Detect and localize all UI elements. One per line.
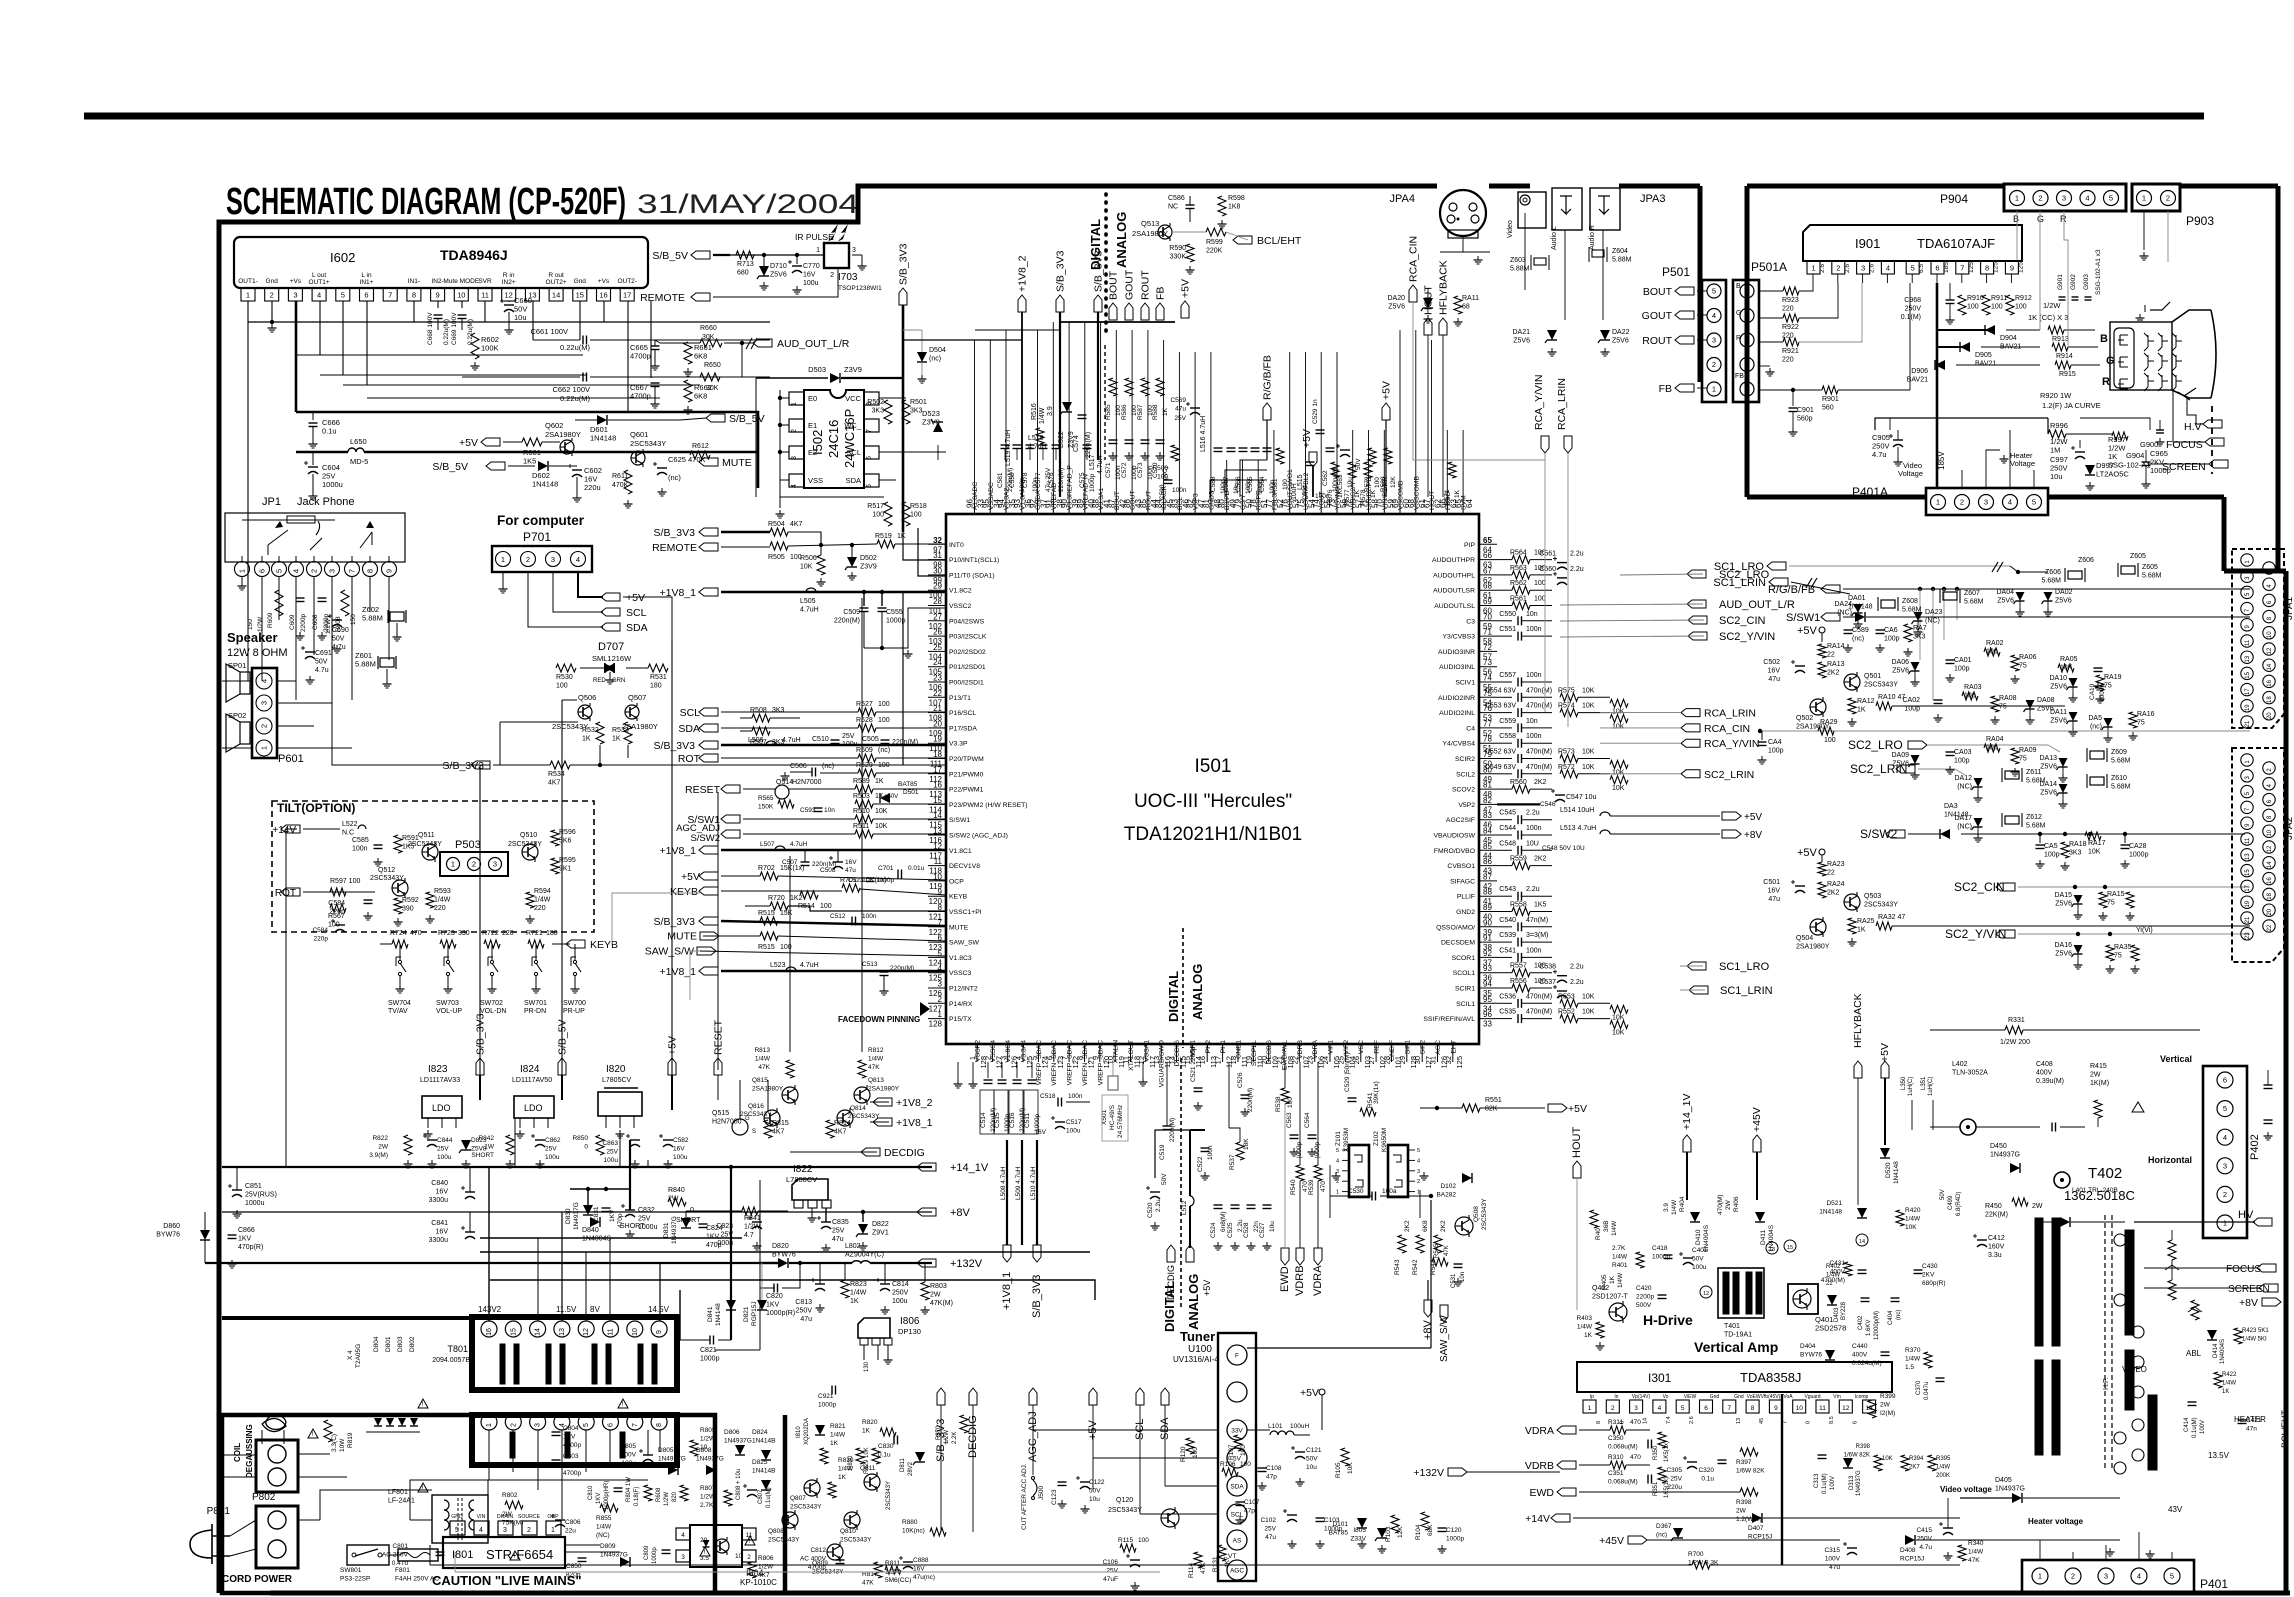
svg-text:39K(1x): 39K(1x) — [1373, 1081, 1380, 1104]
transistor Q808 2SC5343Y — [782, 1512, 798, 1528]
resistor R518 100 — [902, 502, 910, 526]
svg-text:10: 10 — [632, 1328, 639, 1336]
svg-text:C691: C691 — [315, 650, 332, 657]
svg-text:220: 220 — [1782, 306, 1794, 313]
svg-text:L515: L515 — [1297, 474, 1304, 490]
svg-text:SC2_Y/VIN: SC2_Y/VIN — [1719, 631, 1775, 643]
svg-text:C528: C528 — [1243, 1222, 1250, 1238]
capacitor C691 50V 4.7u — [305, 651, 315, 653]
svg-text:C305: C305 — [1666, 1467, 1682, 1474]
svg-text:4: 4 — [2137, 1572, 2141, 1581]
resistor R422 1/4W 1K — [2214, 1372, 2222, 1388]
svg-text:128: 128 — [929, 1020, 943, 1029]
svg-text:10K: 10K — [1612, 1030, 1625, 1037]
svg-text:1/4W: 1/4W — [1905, 1356, 1921, 1363]
svg-text:1N414B: 1N414B — [752, 1468, 776, 1475]
svg-text:R574: R574 — [1558, 703, 1575, 710]
svg-text:3.9: 3.9 — [1663, 1203, 1670, 1212]
net flag +5V right bundle — [1382, 403, 1390, 420]
resistor R528 100 — [858, 724, 876, 732]
svg-text:KEYB: KEYB — [670, 886, 698, 898]
svg-text:R515: R515 — [758, 910, 775, 917]
svg-text:RA35: RA35 — [2114, 944, 2132, 951]
svg-text:5: 5 — [1681, 1405, 1685, 1412]
svg-text:1W: 1W — [484, 1144, 495, 1151]
svg-text:100: 100 — [878, 717, 890, 724]
svg-text:1: 1 — [486, 1423, 493, 1427]
svg-text:2: 2 — [830, 272, 834, 279]
svg-text:ViEW: ViEW — [1684, 1394, 1697, 1400]
resistor RA23 22 — [1818, 862, 1826, 876]
svg-text:+5V: +5V — [1797, 847, 1818, 859]
svg-text:2SC5343Y: 2SC5343Y — [1108, 1507, 1142, 1514]
svg-text:P503: P503 — [455, 839, 481, 851]
svg-text:4.7uH: 4.7uH — [800, 962, 819, 969]
capacitors C524 C525 C528 C527 — [1214, 1204, 1223, 1206]
net flag S/SW1 left — [721, 815, 740, 823]
svg-text:C552 63V: C552 63V — [1485, 749, 1516, 756]
svg-text:R724: R724 — [390, 930, 407, 937]
svg-text:Jack Phone: Jack Phone — [297, 496, 354, 508]
svg-text:28: 28 — [1383, 1056, 1392, 1064]
svg-text:14: 14 — [1643, 1418, 1649, 1424]
svg-text:24.576MHz: 24.576MHz — [1117, 1105, 1124, 1138]
svg-text:10: 10 — [2267, 829, 2273, 836]
svg-text:1000p: 1000p — [652, 1547, 658, 1564]
svg-text:R553: R553 — [1558, 993, 1575, 1000]
capacitor C888 16V 47u(nc) — [903, 1561, 913, 1563]
capacitor C665 4700p — [651, 345, 660, 347]
net flag ROT tilt — [281, 888, 300, 896]
svg-text:9: 9 — [938, 888, 943, 897]
resistor R591 1K5 — [394, 835, 402, 853]
svg-text:VSSC3: VSSC3 — [949, 970, 972, 977]
svg-text:JP1: JP1 — [262, 496, 281, 508]
svg-text:GOUT: GOUT — [1124, 269, 1136, 300]
svg-text:!: ! — [422, 1401, 424, 1408]
svg-text:C565: C565 — [1247, 476, 1254, 492]
svg-text:C431: C431 — [1829, 1260, 1845, 1267]
connector JPA1 — [2232, 549, 2284, 728]
svg-text:125: 125 — [1455, 1056, 1464, 1069]
CRT socket — [2114, 328, 2134, 388]
svg-text:VCC: VCC — [845, 394, 861, 403]
svg-text:RA17: RA17 — [2088, 840, 2106, 847]
net flag SAW_S/W below — [1440, 1305, 1448, 1322]
svg-text:R820: R820 — [862, 1419, 878, 1426]
svg-text:MD-5: MD-5 — [350, 457, 368, 466]
svg-text:72: 72 — [1483, 643, 1492, 652]
resistor RA08 75 — [1991, 696, 1999, 712]
svg-text:C547 10u: C547 10u — [1566, 794, 1596, 801]
svg-text:76: 76 — [1281, 499, 1290, 508]
resistor R571 1K — [1448, 462, 1456, 478]
svg-text:75: 75 — [2019, 663, 2027, 670]
T801 wires to rails — [488, 1167, 490, 1321]
capacitor CA28 1000p — [2124, 834, 2126, 843]
svg-text:4: 4 — [2085, 194, 2089, 203]
svg-text:18K: 18K — [1243, 1138, 1250, 1150]
svg-text:1: 1 — [2038, 1572, 2042, 1581]
svg-text:24: 24 — [933, 658, 942, 667]
capacitor C590 100n — [1164, 479, 1173, 481]
svg-text:C499: C499 — [1948, 1195, 1954, 1210]
svg-text:DECSDEM: DECSDEM — [1441, 940, 1475, 947]
svg-text:+1V8_2: +1V8_2 — [1017, 255, 1029, 292]
svg-text:P15/TX: P15/TX — [949, 1016, 972, 1023]
capacitor C574 220n(M) — [1078, 414, 1087, 416]
svg-text:7: 7 — [1060, 1056, 1069, 1060]
svg-text:5.88M: 5.88M — [1510, 266, 1530, 273]
resistor R581 100 — [1276, 448, 1284, 464]
ground P701 pin1 — [502, 572, 504, 585]
svg-text:AUDOUTLSL: AUDOUTLSL — [1434, 603, 1475, 610]
thick audio wire — [296, 412, 758, 488]
component C543 row right of I501 — [1497, 895, 1512, 897]
svg-text:C662 100V: C662 100V — [552, 385, 590, 394]
net flag HV — [2134, 1221, 2255, 1223]
resistor R515 15K — [760, 917, 778, 925]
svg-text:3: 3 — [2062, 194, 2066, 203]
svg-text:1: 1 — [238, 569, 247, 573]
svg-text:16: 16 — [2267, 679, 2273, 686]
svg-text:C812: C812 — [810, 1547, 826, 1554]
net flag +5V ldo — [668, 1058, 676, 1075]
svg-text:Q512: Q512 — [378, 867, 395, 874]
svg-text:C582: C582 — [673, 1137, 689, 1144]
svg-text:1K: 1K — [850, 1298, 859, 1305]
svg-text:1K: 1K — [2222, 1389, 2229, 1395]
net flag SC1_LRO top — [1767, 562, 1786, 570]
svg-text:1KV: 1KV — [238, 1236, 252, 1243]
svg-text:5.68M: 5.68M — [1964, 599, 1984, 606]
svg-text:BAT85: BAT85 — [898, 781, 918, 788]
component R561 row right of I501 — [1497, 605, 1512, 607]
I602 pin boxes 1-17 — [241, 288, 255, 301]
I602 pin drop wires — [247, 301, 249, 568]
svg-text:2SD2578: 2SD2578 — [1815, 1324, 1846, 1333]
component C557 row right of I501 — [1497, 681, 1512, 683]
svg-text:+5V: +5V — [1300, 1387, 1319, 1399]
svg-text:C888: C888 — [913, 1557, 929, 1564]
svg-text:D102: D102 — [1440, 1183, 1456, 1190]
svg-text:CAUTION "LIVE MAINS": CAUTION "LIVE MAINS" — [432, 1573, 582, 1588]
svg-text:400V: 400V — [1830, 1269, 1846, 1276]
svg-text:R850: R850 — [572, 1135, 588, 1142]
svg-text:10K: 10K — [1582, 993, 1595, 1000]
svg-text:3.5: 3.5 — [700, 1555, 709, 1562]
svg-text:180: 180 — [546, 930, 558, 937]
svg-text:250V: 250V — [1905, 306, 1922, 313]
svg-text:1K5: 1K5 — [1534, 902, 1547, 909]
svg-text:LF-24A1: LF-24A1 — [388, 1498, 415, 1505]
svg-text:S/B_3V3: S/B_3V3 — [1031, 1275, 1043, 1318]
svg-text:4K7: 4K7 — [790, 521, 803, 528]
svg-text:2: 2 — [1417, 1179, 1420, 1185]
svg-text:85: 85 — [1139, 499, 1148, 508]
svg-text:3: 3 — [1984, 498, 1988, 507]
svg-text:+Vs: +Vs — [290, 278, 302, 285]
svg-text:!: ! — [749, 1538, 751, 1545]
svg-text:F: F — [1235, 1353, 1239, 1360]
svg-text:+132V: +132V — [950, 1258, 983, 1270]
svg-text:2: 2 — [2071, 1572, 2075, 1581]
svg-text:P14/RX: P14/RX — [949, 1001, 973, 1008]
svg-text:D450: D450 — [1990, 1143, 2007, 1150]
net flag S/B_3V3 bottom mid — [937, 1388, 945, 1405]
svg-text:P03/I2SCLK: P03/I2SCLK — [949, 634, 987, 641]
svg-text:L509 4.7uH: L509 4.7uH — [1015, 1166, 1022, 1200]
svg-text:6: 6 — [364, 291, 368, 300]
svg-text:2W: 2W — [378, 1144, 389, 1151]
svg-text:L507: L507 — [760, 841, 775, 848]
svg-text:R519: R519 — [875, 533, 892, 540]
svg-text:2SC5343Y: 2SC5343Y — [408, 841, 442, 848]
switch SW801 PS3-22SP — [347, 1545, 389, 1565]
svg-text:4: 4 — [576, 555, 580, 564]
svg-text:1M: 1M — [2050, 446, 2060, 455]
P903 wires — [2143, 211, 2145, 250]
svg-text:R723: R723 — [438, 930, 455, 937]
wires heater net — [1875, 418, 2048, 430]
svg-text:1K: 1K — [875, 778, 884, 785]
svg-text:I824: I824 — [520, 1064, 540, 1075]
svg-text:J500: J500 — [1038, 1486, 1045, 1500]
svg-text:Z606: Z606 — [2078, 557, 2094, 564]
resistor R842 1W SHORT — [506, 1135, 514, 1155]
svg-text:AGC: AGC — [1230, 1568, 1244, 1575]
capacitor C866 1KV 470p(R) — [228, 1234, 237, 1236]
svg-text:69: 69 — [1483, 597, 1492, 606]
resistor R537 18K — [1236, 1142, 1244, 1160]
component C553 63V row right of I501 — [1497, 712, 1512, 714]
svg-text:1: 1 — [551, 1527, 555, 1534]
svg-text:N.C: N.C — [342, 830, 354, 837]
svg-text:C830: C830 — [878, 1443, 894, 1450]
svg-text:47K: 47K — [868, 1064, 880, 1071]
svg-text:R841: R841 — [744, 1215, 761, 1222]
svg-text:REMOTE: REMOTE — [652, 542, 697, 554]
T801 secondary wires down — [488, 1430, 490, 1480]
component C545 row right of I501 — [1497, 819, 1512, 821]
resistor R506 10K — [820, 545, 822, 555]
svg-text:SSG-102-A1 x3: SSG-102-A1 x3 — [2095, 249, 2102, 295]
svg-text:15K(1x): 15K(1x) — [780, 865, 805, 872]
svg-text:|000p: |000p — [1314, 1141, 1321, 1158]
svg-text:C805: C805 — [620, 1443, 636, 1450]
svg-text:Video voltage: Video voltage — [1940, 1485, 1992, 1494]
connector P402 — [2203, 1066, 2247, 1238]
key switches SW704 SW703 SW702 SW701 SW700 — [398, 960, 401, 963]
svg-text:125: 125 — [1968, 262, 1975, 273]
svg-text:C804: C804 — [563, 1425, 579, 1432]
svg-text:OUT1+: OUT1+ — [309, 279, 330, 286]
svg-text:TDA8946J: TDA8946J — [440, 247, 508, 263]
svg-text:50V: 50V — [315, 659, 328, 666]
svg-text:7: 7 — [1960, 264, 1964, 273]
svg-text:1N4148: 1N4148 — [715, 1303, 722, 1326]
resistor RA15 75 — [2099, 892, 2107, 908]
svg-text:2.7K: 2.7K — [1612, 1245, 1626, 1252]
svg-text:1/4W: 1/4W — [1671, 1199, 1678, 1215]
svg-text:D830: D830 — [565, 1208, 572, 1224]
svg-text:6: 6 — [866, 456, 873, 460]
svg-text:1.6KV: 1.6KV — [1866, 1320, 1872, 1336]
svg-text:100: 100 — [878, 762, 890, 769]
diode D408 RCP15J — [1905, 1535, 1915, 1545]
net flag +5V — [601, 593, 620, 601]
svg-text:25V: 25V — [1264, 1526, 1276, 1533]
zener Z601 5.68M — [380, 658, 394, 667]
capacitor C526 220n(M) — [1241, 1094, 1250, 1096]
svg-text:P23/PWM2 (H/W RESET): P23/PWM2 (H/W RESET) — [949, 802, 1028, 809]
svg-text:D521: D521 — [1826, 1200, 1842, 1207]
svg-text:220n(M): 220n(M) — [1247, 1088, 1254, 1112]
svg-text:Audio R: Audio R — [1589, 225, 1596, 250]
svg-text:470(M): 470(M) — [1717, 1194, 1724, 1215]
svg-text:R996: R996 — [2050, 421, 2068, 430]
svg-text:8: 8 — [656, 1423, 663, 1427]
capacitor C305 25V 220u — [1687, 1461, 1697, 1463]
svg-text:Z611: Z611 — [2026, 769, 2042, 776]
svg-text:D367: D367 — [1656, 1523, 1672, 1530]
net flag S/B_3V3 bundle B — [1094, 295, 1102, 312]
svg-text:I806: I806 — [900, 1316, 920, 1327]
svg-text:5.68M: 5.68M — [2111, 758, 2131, 765]
svg-text:100: 100 — [1986, 745, 1998, 752]
svg-text:Voltage: Voltage — [1898, 469, 1923, 478]
svg-text:L518: L518 — [1028, 435, 1044, 442]
net flag DECDIG bottom mid — [969, 1388, 977, 1405]
capacitor C520 2.2u 50V — [1150, 1191, 1160, 1193]
svg-text:C558: C558 — [1499, 733, 1516, 740]
capacitors P402 right — [2264, 1084, 2273, 1086]
svg-text:87: 87 — [1107, 499, 1116, 508]
capacitor C509 220n(M) — [862, 590, 866, 594]
svg-text:DA23: DA23 — [1925, 609, 1943, 616]
svg-text:C511: C511 — [1024, 1113, 1031, 1128]
capacitor C517 100u 16V — [1055, 1121, 1065, 1123]
svg-text:Z607: Z607 — [1964, 590, 1980, 597]
svg-text:180: 180 — [650, 683, 662, 690]
svg-text:Vertical Amp: Vertical Amp — [1694, 1339, 1778, 1355]
net flag +132V vert — [1448, 1468, 1467, 1476]
svg-text:89: 89 — [1076, 499, 1085, 508]
svg-text:R599: R599 — [1206, 239, 1223, 246]
svg-text:68: 68 — [1483, 582, 1492, 591]
net flag RCA_LRIN — [1600, 712, 1680, 714]
svg-text:3: 3 — [1712, 336, 1716, 345]
net flag S/B_5V right — [706, 414, 725, 422]
svg-text:C550: C550 — [1499, 611, 1516, 618]
capacitor C661 0.22u(M) 100V — [533, 339, 580, 341]
resistor R509 (nc) — [721, 757, 858, 759]
svg-text:14.5V: 14.5V — [648, 1305, 670, 1314]
net flag +5V deflection — [1881, 1061, 1889, 1078]
svg-text:470n(M): 470n(M) — [1526, 1009, 1552, 1016]
svg-text:4: 4 — [1886, 264, 1890, 273]
svg-text:R901: R901 — [1822, 396, 1839, 403]
svg-text:R540: R540 — [1290, 1179, 1297, 1195]
wire corners down-right — [247, 568, 249, 620]
video section border frame — [1747, 184, 2004, 189]
svg-text:R880: R880 — [902, 1519, 918, 1526]
transistor Q511 2SC5343Y — [422, 844, 438, 860]
svg-text:R802: R802 — [502, 1492, 518, 1499]
page right border — [2284, 571, 2289, 1593]
svg-text:Q810: Q810 — [840, 1528, 856, 1535]
svg-text:100V: 100V — [2200, 1420, 2206, 1434]
svg-text:1/2W: 1/2W — [325, 618, 332, 634]
svg-text:4: 4 — [317, 291, 321, 300]
resistor R103 12K — [1391, 1515, 1399, 1533]
svg-text:9K1: 9K1 — [559, 866, 572, 873]
svg-text:100n: 100n — [352, 846, 368, 853]
net flag SC1_LRO right — [1687, 962, 1706, 970]
svg-text:7: 7 — [632, 1423, 639, 1427]
resistor R131 4K7 — [1218, 1545, 1226, 1561]
resistor RA04 100 — [1984, 744, 2000, 752]
svg-text:RCA_CIN: RCA_CIN — [1704, 723, 1750, 735]
resistor R611 470K — [624, 470, 632, 494]
svg-text:15: 15 — [2245, 869, 2251, 876]
svg-text:100u: 100u — [1066, 1128, 1081, 1135]
svg-text:SOURCE: SOURCE — [518, 1514, 541, 1520]
svg-text:5: 5 — [1417, 1148, 1420, 1154]
svg-text:DA02: DA02 — [2055, 589, 2073, 596]
svg-text:4700p: 4700p — [563, 1470, 581, 1477]
svg-text:R813: R813 — [754, 1047, 770, 1054]
capacitor C804 1KV 4700p — [552, 1431, 561, 1433]
svg-text:0.22u(M): 0.22u(M) — [560, 343, 591, 352]
svg-text:C806: C806 — [565, 1519, 581, 1526]
transistor Q514 H2N7000 — [743, 788, 775, 790]
svg-text:1K (CC) X 3: 1K (CC) X 3 — [2028, 313, 2068, 322]
svg-text:G903: G903 — [2083, 274, 2090, 290]
svg-text:9: 9 — [385, 569, 394, 573]
wire left border to speaker — [222, 680, 252, 682]
svg-text:470: 470 — [410, 930, 422, 937]
svg-text:1K5: 1K5 — [523, 457, 536, 466]
T801 primary pins 16-9 — [481, 1321, 497, 1337]
svg-text:13.5V: 13.5V — [2208, 1451, 2230, 1460]
svg-text:R105: R105 — [1335, 1462, 1342, 1478]
svg-text:1000u: 1000u — [638, 1224, 658, 1231]
svg-text:3: 3 — [493, 860, 497, 869]
svg-text:C569: C569 — [1170, 397, 1186, 404]
resistor R912 100 — [2006, 295, 2014, 315]
svg-text:+1V8_2: +1V8_2 — [896, 1097, 933, 1109]
svg-text:1/4W: 1/4W — [838, 1466, 854, 1473]
svg-text:FACEDOWN PINNING: FACEDOWN PINNING — [838, 1015, 920, 1024]
svg-text:Mute MODE: Mute MODE — [443, 278, 479, 285]
svg-text:R506: R506 — [800, 555, 817, 562]
svg-text:C584: C584 — [312, 927, 328, 934]
svg-text:Z5V6: Z5V6 — [1513, 338, 1530, 345]
net flag KEYB — [566, 940, 585, 948]
svg-text:HOUT: HOUT — [1571, 1127, 1583, 1158]
net flag +5V KEYB — [699, 872, 718, 880]
svg-text:47u: 47u — [1265, 1534, 1276, 1541]
svg-text:3: 3 — [1745, 336, 1749, 345]
svg-text:R537: R537 — [1229, 1154, 1236, 1170]
svg-text:C863: C863 — [602, 1140, 618, 1147]
svg-text:Q514: Q514 — [776, 779, 793, 786]
svg-text:SCIL2: SCIL2 — [1456, 771, 1475, 778]
IC I502 24C16 eeprom — [804, 390, 864, 488]
svg-text:3: 3 — [791, 456, 798, 460]
svg-text:TLN-3052A: TLN-3052A — [1952, 1070, 1988, 1077]
